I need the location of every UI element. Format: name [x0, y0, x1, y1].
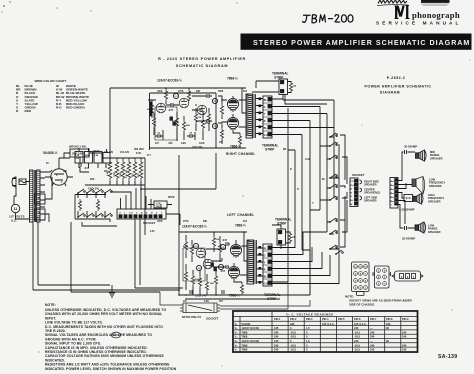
svg-text:PIN 5: PIN 5: [338, 317, 345, 321]
svg-text:PIN 4: PIN 4: [322, 317, 329, 321]
svg-text:240: 240: [402, 348, 407, 352]
svg-text:SOCKET: SOCKET: [352, 173, 365, 177]
rectifier tube V1: [51, 169, 67, 185]
socket view 3-pin oval plug: [392, 271, 423, 281]
svg-text:—: —: [370, 340, 373, 343]
output tube V6: [230, 244, 241, 257]
svg-text:340: 340: [386, 322, 391, 326]
svg-text:-16.5: -16.5: [354, 330, 361, 334]
BOTTOM: [160, 282, 310, 321]
svg-text:SPEAKER: SPEAKER: [429, 184, 442, 188]
svg-text:1.5: 1.5: [306, 326, 310, 330]
svg-text:.005: .005: [168, 143, 173, 145]
socket view 6-pin plug: [373, 266, 391, 288]
cathode resistor left: [240, 283, 243, 295]
handwritten model number JBM-200: [303, 15, 353, 23]
plate resistor R3: [164, 89, 167, 101]
svg-text:LEFT CHANNEL: LEFT CHANNEL: [227, 213, 254, 217]
svg-text:240: 240: [402, 343, 407, 347]
svg-text:G-W: G-W: [264, 134, 270, 137]
svg-text:100K: 100K: [120, 171, 122, 177]
svg-text:12AX7-ECC83-½: 12AX7-ECC83-½: [157, 79, 182, 83]
svg-text:135: 135: [274, 339, 279, 343]
preamp inner sub-box left: [183, 248, 205, 281]
wires mute relay: [160, 282, 310, 309]
svg-text:W: W: [350, 204, 352, 206]
svg-text:STRIP: STRIP: [265, 148, 275, 152]
svg-text:-16.5: -16.5: [354, 343, 361, 347]
svg-text:Y-G: Y-G: [350, 181, 354, 183]
svg-text:R - 2620 STEREO POWER AM: R - 2620 STEREO POWER AMPLIFIER: [158, 57, 246, 61]
output tube V4: [227, 117, 238, 130]
svg-text:7868: 7868: [242, 343, 248, 347]
svg-text:SPEAKER(S): SPEAKER(S): [364, 191, 380, 195]
svg-text:-16.5: -16.5: [290, 343, 297, 347]
svg-text:315 V.A.C.: 315 V.A.C.: [322, 322, 335, 326]
svg-text:PIN 9: PIN 9: [402, 317, 409, 321]
svg-text:B-R: B-R: [243, 91, 247, 93]
svg-text:7868-½: 7868-½: [227, 77, 238, 81]
svg-text:PIN 8: PIN 8: [386, 317, 393, 321]
svg-text:250K: 250K: [85, 155, 91, 157]
triode V2b: [179, 98, 189, 108]
svg-text:SPEAKER: SPEAKER: [364, 183, 377, 187]
svg-text:R-G: R-G: [350, 185, 354, 187]
PS: [9, 145, 216, 298]
svg-text:BR: BR: [283, 149, 287, 151]
svg-text:110-120: 110-120: [120, 151, 130, 154]
svg-text:Y-G: Y-G: [129, 213, 133, 215]
plate resistor R6: [187, 89, 190, 101]
signal voltage bubble 7.5V lower: [212, 123, 217, 128]
svg-text:15Ω 5%: 15Ω 5%: [192, 145, 203, 149]
output socket SO3: [390, 178, 398, 209]
OPT secondary taps: [256, 99, 264, 134]
screen bypass caps: [158, 134, 160, 138]
left channel grid caps: [190, 290, 192, 294]
high frequency speaker LS3: [413, 193, 423, 204]
output tube V7: [228, 266, 239, 279]
svg-text:12AX7-ECC83: 12AX7-ECC83: [242, 326, 260, 330]
svg-text:450: 450: [36, 201, 41, 204]
svg-text:-16.5: -16.5: [354, 335, 361, 339]
svg-text:RED-GREEN: RED-GREEN: [66, 106, 85, 110]
svg-text:SIDE OF CHASSIS.: SIDE OF CHASSIS.: [349, 303, 375, 307]
svg-text:SPEAKER: SPEAKER: [364, 199, 377, 203]
svg-text:BL: BL: [264, 248, 268, 251]
svg-text:240: 240: [370, 330, 375, 334]
B+ center tap left: [244, 232, 247, 261]
svg-text:.047: .047: [222, 238, 228, 242]
svg-text:240: 240: [274, 330, 279, 334]
svg-text:6.3V: 6.3V: [136, 152, 141, 155]
svg-text:1.8 V: 1.8 V: [113, 333, 119, 337]
power level switch S1 contacts: [329, 133, 337, 138]
encircled 1.8V in notes: [111, 332, 120, 338]
preamp inner sub-box: [155, 107, 177, 140]
preamp triode V5b: [203, 259, 213, 269]
preamp triode V5a: [196, 248, 206, 258]
output tube V3: [227, 98, 238, 111]
tube plate wires to OPT: [233, 96, 246, 133]
signal voltage bubble 7.5V: [212, 98, 217, 103]
grid resistor R2: [150, 103, 153, 115]
power level switch row 2: [77, 213, 85, 218]
lower bus wire: [85, 158, 145, 235]
preamp resistors left channel: [184, 240, 187, 252]
svg-text:315 V.A.C.: 315 V.A.C.: [354, 322, 367, 326]
wires rectifier: [45, 158, 73, 177]
power level switch row 1: [77, 189, 85, 194]
resistor 47 left: [288, 232, 291, 244]
svg-text:V₁: V₁: [235, 322, 238, 326]
fuse F2 1.5A 3AG: [154, 201, 167, 208]
svg-text:-16.5: -16.5: [290, 330, 297, 334]
crossover capacitor box: [398, 193, 404, 199]
svg-text:470K: 470K: [205, 122, 211, 125]
terminal strip TS2 top right: [279, 79, 288, 95]
svg-text:270K: 270K: [178, 91, 184, 93]
cathode resistor R4: [152, 116, 155, 128]
triode V2c: [197, 105, 207, 115]
svg-text:100K: 100K: [114, 171, 116, 177]
staircase wires from TS4 to switch assembly: [272, 220, 340, 284]
OPT2 secondary taps: [257, 248, 264, 282]
svg-text:DIAGRAM: DIAGRAM: [380, 91, 400, 95]
wires down from switch rows: [82, 219, 117, 226]
control pots row: [75, 152, 83, 164]
svg-text:PIN 6: PIN 6: [354, 317, 361, 321]
svg-text:phonograph: phonograph: [412, 10, 460, 20]
low frequency speaker wire: [398, 183, 412, 189]
svg-text:4.25-35VMP: 4.25-35VMP: [399, 208, 415, 212]
wires TS3: [272, 225, 281, 249]
triode V2a: [156, 103, 166, 113]
socket views note: [345, 295, 413, 307]
svg-text:P-2652-2: P-2652-2: [387, 76, 405, 80]
resistor R21 47 ohm: [289, 81, 292, 93]
svg-text:B: B: [264, 120, 266, 123]
svg-text:WIRE COLOR CHART: WIRE COLOR CHART: [35, 79, 67, 83]
B+ labels row: [104, 148, 144, 155]
input line wire: [109, 88, 111, 152]
switch wiring: [320, 133, 339, 249]
mid range speaker LS1: [416, 150, 427, 161]
logo address strip top right: [421, 0, 450, 3]
svg-text:G: G: [264, 106, 266, 109]
braces for speaker labels: [360, 180, 362, 200]
switch to socket connectors: [340, 135, 347, 247]
svg-text:BL: BL: [264, 99, 268, 102]
svg-text:B: B: [264, 269, 266, 272]
mute relay K1: [183, 303, 217, 313]
svg-text:100K: 100K: [157, 91, 163, 93]
svg-text:B-R: B-R: [243, 221, 247, 223]
svg-text:7868: 7868: [242, 348, 248, 352]
svg-text:INDICATED. POWER LEVEL SWIT: INDICATED. POWER LEVEL SWITCH SHOWN IN M…: [45, 367, 177, 371]
harness horizontal links: [272, 150, 327, 282]
svg-text:450: 450: [36, 217, 41, 220]
svg-text:240: 240: [370, 343, 375, 347]
svg-text:1.5: 1.5: [306, 339, 310, 343]
T1 secondary winding: [37, 170, 40, 222]
svg-text:100K: 100K: [157, 221, 163, 223]
svg-text:SPEAKER: SPEAKER: [428, 230, 441, 234]
svg-text:15K-1W: 15K-1W: [126, 169, 128, 178]
svg-text:BASS: BASS: [93, 150, 100, 153]
svg-text:220K: 220K: [172, 121, 178, 123]
table header row: [274, 317, 409, 321]
svg-text:PIN 1: PIN 1: [274, 317, 281, 321]
svg-text:12AX7-ECC83-½: 12AX7-ECC83-½: [182, 225, 207, 229]
svg-text:240: 240: [274, 343, 279, 347]
extra preamp resistors left channel: [198, 276, 201, 288]
terminal strip TS4 left channel: [263, 244, 272, 286]
wires socket to switch bus: [110, 185, 161, 209]
coupling caps left channel: [226, 242, 228, 246]
svg-text:PIN 2: PIN 2: [290, 317, 297, 321]
svg-text:R-Y: R-Y: [147, 155, 151, 157]
terminal strip TS1 right channel: [263, 96, 272, 138]
harness vertical wires: [288, 100, 339, 295]
junction dots left channel: [178, 231, 245, 296]
table body: [235, 322, 407, 352]
svg-text:15Ω 5%: 15Ω 5%: [88, 187, 99, 191]
resistors between switch rows: [78, 199, 81, 211]
logo script squiggle (V-M script, cut off at top): [378, 0, 407, 4]
svg-text:135: 135: [274, 326, 279, 330]
svg-text:—: —: [370, 327, 373, 330]
coupling capacitor C2: [171, 103, 173, 107]
svg-text:12AX7-ECC83: 12AX7-ECC83: [242, 339, 260, 343]
terminal strip TS3 left top: [277, 229, 286, 245]
B+ center tap wire: [242, 88, 246, 113]
svg-text:6.3V: 6.3V: [150, 231, 155, 233]
low range speaker wire: [398, 201, 415, 229]
bottom-left horizontal wires: [33, 285, 183, 292]
svg-text:11: 11: [14, 207, 18, 211]
bank value labels vertical: [107, 169, 140, 178]
svg-text:SOCKET: SOCKET: [143, 221, 156, 225]
svg-text:120K: 120K: [199, 143, 205, 145]
svg-text:V₇: V₇: [235, 348, 238, 352]
svg-text:SPKR: SPKR: [168, 197, 175, 199]
svg-text:1M: 1M: [216, 239, 219, 241]
junction dots right channel: [148, 87, 243, 141]
wires from TS1 to harness: [272, 99, 335, 135]
svg-text:.047: .047: [220, 269, 226, 273]
signal voltage bubbles left channel: [193, 243, 198, 248]
svg-text:G-W: G-W: [264, 283, 270, 286]
svg-text:A.C.: A.C.: [11, 219, 17, 223]
svg-text:SPEAKER: SPEAKER: [428, 199, 441, 203]
left channel top bus wire: [179, 225, 310, 299]
scattered component value labels: [46, 91, 326, 303]
svg-text:56K: 56K: [210, 283, 214, 285]
svg-text:G: G: [264, 255, 266, 258]
svg-text:270K: 270K: [183, 221, 189, 223]
T1 core: [34, 170, 35, 222]
svg-text:-16.5: -16.5: [290, 348, 297, 352]
svg-text:SA-139: SA-139: [438, 354, 457, 360]
svg-text:240: 240: [370, 348, 375, 352]
output transformer OPT1: [246, 94, 253, 138]
svg-text:5V: 5V: [46, 163, 49, 165]
svg-text:-16.5: -16.5: [354, 348, 361, 352]
low range speaker LS4: [415, 222, 426, 233]
B+ bus wire: [102, 157, 145, 159]
signal voltage bubble 1.3V: [173, 93, 178, 98]
top bus wire right channel: [110, 87, 246, 89]
mid range speaker wire with capacitor: [398, 152, 415, 181]
power transformer T1 primary winding: [30, 170, 33, 222]
svg-text:SCHEMATIC DIAGRAM: SCHEMATIC DIAGRAM: [176, 64, 228, 68]
svg-text:7868-½: 7868-½: [229, 294, 240, 298]
cathode resistor R15: [238, 134, 241, 146]
output transformer OPT2: [247, 240, 254, 284]
grid resistors output tubes: [220, 104, 223, 116]
svg-text:STEREO POWER AMPLIFIER SCHEMAT: STEREO POWER AMPLIFIER SCHEMATIC DIAGRAM: [253, 39, 470, 47]
svg-text:15Ω 5%: 15Ω 5%: [195, 294, 206, 298]
svg-text:G-W: G-W: [305, 159, 311, 161]
dropping resistor bank: [108, 159, 112, 181]
RIGHTSIDE: [272, 100, 446, 295]
svg-text:SPEAKER: SPEAKER: [430, 156, 443, 160]
svg-text:.047: .047: [168, 108, 174, 112]
svg-text:+40: +40: [36, 197, 41, 200]
LC: [178, 213, 339, 301]
svg-text:MUTE RELAY: MUTE RELAY: [182, 315, 201, 319]
T1 secondary taps: [40, 170, 52, 220]
fuse F1: [19, 179, 26, 185]
svg-text:470K: 470K: [147, 108, 153, 111]
filter capacitor can C31: [35, 194, 46, 204]
svg-text:470K: 470K: [183, 245, 189, 248]
svg-text:NOTE:: NOTE:: [45, 303, 56, 307]
interconnect socket SO1: [117, 209, 166, 219]
svg-text:RED: RED: [25, 109, 32, 113]
svg-text:33K: 33K: [203, 221, 208, 223]
svg-text:32-50VMP: 32-50VMP: [404, 145, 417, 149]
encircled 11 marker: [11, 204, 19, 212]
svg-text:PIN 3: PIN 3: [306, 317, 313, 321]
electrolytic cap blobs: [170, 117, 173, 121]
svg-text:7868-½: 7868-½: [235, 224, 246, 228]
electrolytic cap blobs left: [211, 263, 214, 267]
phase splitter resistors: [175, 116, 178, 128]
HEADER: [158, 0, 471, 95]
svg-text:600: 600: [90, 177, 95, 181]
svg-text:1M: 1M: [198, 117, 201, 119]
logo VM monogram block: [396, 6, 407, 19]
svg-text:7868: 7868: [242, 335, 248, 339]
svg-text:R-G: R-G: [56, 106, 62, 110]
svg-text:240: 240: [402, 330, 407, 334]
svg-text:LIN: LIN: [95, 155, 99, 157]
svg-text:240: 240: [402, 335, 407, 339]
svg-text:6.8K: 6.8K: [181, 143, 186, 145]
svg-text:360 VDC: 360 VDC: [134, 148, 144, 151]
RC: [110, 72, 334, 157]
bottom-left vertical wires: [33, 219, 140, 292]
svg-text:PIN 7: PIN 7: [370, 317, 377, 321]
svg-text:240: 240: [354, 326, 359, 330]
svg-text:G: G: [119, 213, 121, 215]
svg-text:D. C. VOLTAGE READINGS: D. C. VOLTAGE READINGS: [286, 313, 333, 317]
svg-text:5U4GB: 5U4GB: [242, 322, 251, 326]
low frequency speaker LS2: [412, 177, 425, 195]
svg-text:POWER AMPLIFIER SCHEMATIC: POWER AMPLIFIER SCHEMATIC: [365, 85, 432, 89]
voltage table: [233, 311, 418, 352]
notes block: [45, 303, 177, 371]
ground symbol: [109, 285, 115, 297]
svg-text:240: 240: [274, 335, 279, 339]
svg-text:240: 240: [370, 335, 375, 339]
svg-text:RIGHT CHANNEL: RIGHT CHANNEL: [226, 152, 256, 156]
preamp inner box wires: [150, 93, 247, 148]
socket view 12-pin plug: [352, 262, 370, 296]
svg-text:56K: 56K: [186, 125, 190, 127]
coupling caps to output tubes: [207, 94, 209, 98]
svg-text:240: 240: [274, 348, 279, 352]
svg-text:LIN: LIN: [76, 155, 80, 157]
svg-text:-16.5: -16.5: [290, 335, 297, 339]
plate wires to OPT2: [234, 240, 247, 282]
svg-text:240: 240: [354, 339, 359, 343]
wires plug to transformer: [14, 182, 30, 197]
svg-text:CHASSIS WITH AT 20,000 OHM: CHASSIS WITH AT 20,000 OHMS PER VOLT MET…: [45, 312, 162, 316]
channel box left edge wire: [149, 93, 151, 150]
svg-text:BL-W: BL-W: [264, 276, 271, 279]
filter capacitor can C32: [35, 209, 46, 220]
svg-text:SERVICE MANUAL: SERVICE MANUAL: [376, 21, 462, 26]
AC plug P1: [12, 177, 16, 187]
TS1 wire color labels: [264, 99, 271, 137]
svg-text:+40: +40: [36, 212, 41, 215]
svg-text:WR NO.1 NO.: WR NO.1 NO.: [69, 145, 87, 149]
svg-text:7868: 7868: [242, 330, 248, 334]
svg-text:BL-W: BL-W: [264, 127, 271, 130]
svg-text:220K: 220K: [195, 279, 201, 281]
svg-text:33K: 33K: [196, 91, 201, 93]
WIRECHART: [16, 79, 89, 113]
svg-text:32-50VMP: 32-50VMP: [402, 237, 415, 241]
speaker socket SO2: [350, 178, 358, 207]
black title banner: [241, 34, 472, 50]
svg-text:340: 340: [290, 322, 295, 326]
capacitor C30 .047: [79, 157, 81, 163]
svg-text:7868: 7868: [218, 91, 224, 93]
wires TS2 down to harness: [252, 81, 334, 104]
speaker group labels: [364, 180, 380, 203]
heater wires to channels: [140, 153, 216, 225]
svg-text:5U4GB-½: 5U4GB-½: [43, 151, 58, 155]
svg-text:SOCKET: SOCKET: [206, 317, 219, 321]
